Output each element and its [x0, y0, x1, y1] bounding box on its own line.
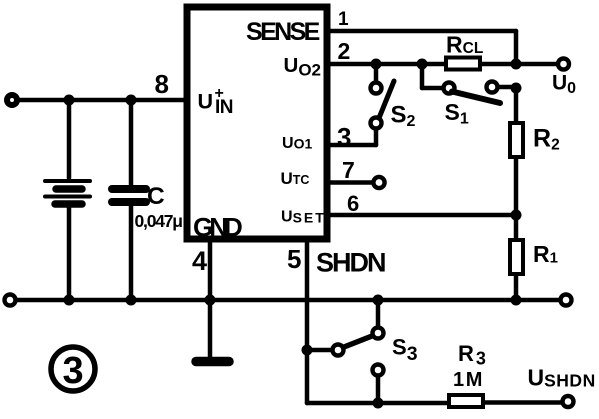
wire battery bottom lead [67, 207, 72, 300]
terminal input top-left [7, 95, 17, 105]
node R2 R1 junction [511, 210, 522, 221]
terminal bottom-right [561, 295, 572, 306]
wire pin2 UO2 [331, 62, 446, 67]
terminal U0 [558, 59, 569, 70]
node pin4 ground [205, 295, 216, 306]
wire battery top lead [67, 100, 72, 178]
ground [196, 300, 229, 362]
svg-text:U: U [198, 90, 214, 114]
wire bottom ground rail [16, 298, 559, 303]
wire capacitor top lead [129, 100, 134, 185]
svg-text:SHDN: SHDN [316, 248, 385, 278]
svg-text:USHDN: USHDN [528, 365, 596, 391]
svg-text:S1: S1 [445, 99, 469, 128]
node S1 branch [417, 59, 428, 70]
svg-text:0,047μ: 0,047μ [135, 211, 183, 231]
svg-text:4: 4 [192, 246, 207, 276]
resistor R3 [449, 395, 483, 407]
switch S2 [371, 64, 395, 145]
wire pin4 lead [208, 242, 213, 300]
svg-text:S2: S2 [391, 102, 416, 131]
svg-text:C: C [147, 183, 165, 210]
node S2 branch [371, 59, 382, 70]
svg-text:3: 3 [63, 350, 84, 392]
svg-text:7: 7 [342, 157, 355, 183]
resistor RCL [446, 58, 480, 70]
node S3 bottom [373, 398, 384, 409]
svg-text:8: 8 [155, 69, 169, 99]
svg-text:SENSE: SENSE [246, 18, 320, 46]
wire R1 leads [514, 215, 519, 240]
wire R2 leads [514, 88, 519, 122]
svg-text:GND: GND [193, 212, 242, 242]
svg-text:U0: U0 [552, 72, 576, 98]
node S1 to R2 [511, 83, 522, 94]
svg-text:R2: R2 [533, 125, 560, 154]
svg-text:UO1: UO1 [282, 135, 312, 152]
terminal bottom-left [5, 295, 16, 306]
switch S1 [422, 64, 516, 103]
node capacitor top [126, 95, 137, 106]
node battery top [64, 95, 75, 106]
wire capacitor bottom lead [129, 206, 134, 300]
svg-text:IN: IN [215, 97, 233, 118]
wire pin1 SENSE [331, 29, 516, 34]
node S3 rail [373, 295, 384, 306]
svg-text:1M: 1M [453, 369, 484, 391]
wire pin7 UTC [331, 180, 373, 185]
node R1 bottom [511, 295, 522, 306]
svg-text:1: 1 [338, 9, 349, 30]
wire SHDN bottom net [307, 401, 449, 406]
node capacitor bottom [126, 295, 137, 306]
node RCL output [511, 59, 522, 70]
wire pin3 UO1 [331, 143, 376, 148]
svg-text:RCL: RCL [446, 32, 483, 58]
capacitor C plates [112, 189, 146, 202]
op-amp U1 regulator box [187, 7, 327, 239]
resistor R2 [510, 123, 523, 157]
svg-text:S3: S3 [392, 335, 418, 366]
svg-text:R3: R3 [458, 341, 486, 369]
svg-text:2: 2 [338, 38, 351, 64]
wire pin6 USET [331, 213, 516, 218]
terminal pin7 open [373, 177, 384, 188]
terminal USHDN [563, 396, 574, 407]
svg-text:6: 6 [347, 191, 359, 216]
node battery bottom [64, 295, 75, 306]
svg-text:5: 5 [287, 244, 301, 274]
switch S3 [302, 300, 384, 403]
wire pin5 SHDN lead [305, 242, 310, 403]
figure number 3 circle [51, 347, 95, 391]
resistor R1 [510, 240, 523, 274]
svg-text:USET: USET [281, 209, 326, 226]
wire UIN top rail [19, 98, 185, 103]
svg-text:R1: R1 [533, 241, 558, 267]
svg-text:3: 3 [337, 122, 351, 152]
battery B1 [45, 181, 90, 204]
